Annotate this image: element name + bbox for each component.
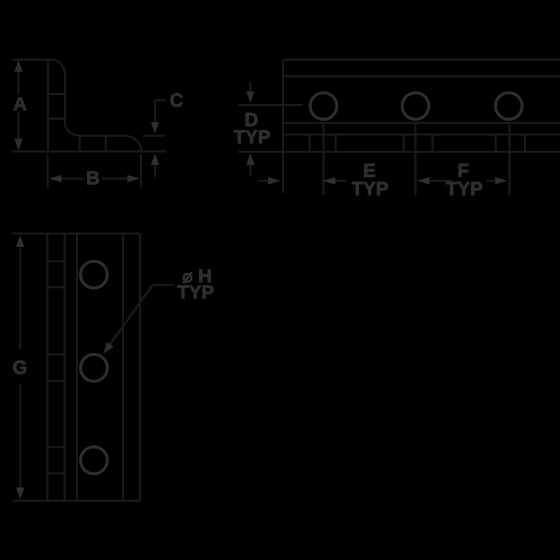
top view line 2 <box>283 75 560 77</box>
side view L-profile outline <box>48 60 142 152</box>
front view bottom edge with G extension <box>13 500 141 502</box>
side view horizontal leg tick 2 <box>105 136 107 152</box>
dimension A line upper segment <box>18 71 20 95</box>
top view tick 1a <box>309 135 311 152</box>
dimension G bottom arrowhead <box>16 488 24 500</box>
label TYP @(252.0,143.3) w=37.0 <box>234 130 270 143</box>
label TYP @(195.6,298.5) w=37.0 <box>177 285 213 298</box>
hole 1 center extension line <box>323 123 325 196</box>
dimension B left arrowhead <box>49 175 62 182</box>
top view left edge <box>282 60 284 152</box>
dimension A bottom arrowhead <box>14 139 22 151</box>
dimension B right arrowhead <box>127 175 139 182</box>
label TYP @(464.3,195.1) w=37.0 <box>446 182 482 195</box>
dimension A bottom extension line / part bottom / C extension <box>12 151 166 153</box>
label A @(20.0,110.3) w=13.7 <box>14 97 27 110</box>
label H @(205,282.4) <box>199 269 210 282</box>
hole leader diagonal segment <box>108 285 153 348</box>
dimension F left arrowhead <box>417 177 430 184</box>
dimension C leader elbow <box>155 100 166 112</box>
front view tick 3b <box>47 472 64 474</box>
front view tick 2b <box>47 380 64 382</box>
front view tick 1a <box>47 260 64 262</box>
dimension F right arrow shaft <box>486 180 498 182</box>
dimension C up arrow shaft <box>154 163 156 177</box>
label G @(19.9,373.8) w=14.8 <box>13 361 26 374</box>
dimension C down arrowhead <box>151 122 159 134</box>
dimension C down arrow shaft <box>154 108 156 123</box>
top view left edge extension below <box>282 152 284 193</box>
dimension B line right segment <box>102 178 130 180</box>
top view hole 3 <box>496 93 523 120</box>
dimension C up arrowhead <box>151 154 159 166</box>
dimension A top extension line <box>12 59 47 61</box>
front view left edge <box>46 234 48 501</box>
top view tick 1b <box>335 135 337 152</box>
front view tick 2a <box>47 353 64 355</box>
dimension F left arrow shaft <box>428 180 452 182</box>
side view vertical leg tick 1 <box>48 93 65 95</box>
label TYP @(370.0,195.1) w=37.0 <box>352 182 388 195</box>
dimension D down arrow shaft <box>249 82 251 93</box>
label E @(369.5,176.9) w=12.7 <box>364 164 375 177</box>
top view tick 3a <box>495 135 497 152</box>
hole 3 center extension line <box>508 123 510 196</box>
dimension G top arrowhead <box>16 235 24 247</box>
dimension G line lower segment <box>19 384 21 490</box>
top view tick 2b <box>432 135 434 152</box>
top view line 4 <box>283 134 560 136</box>
top view tick 2a <box>403 135 405 152</box>
dimension A line lower segment <box>18 113 20 141</box>
dimension G line upper segment <box>19 246 21 350</box>
dimension D up arrow shaft <box>249 164 251 177</box>
diameter symbol <box>183 272 192 283</box>
front view inner line 3 <box>76 234 78 501</box>
dimension B line left segment <box>59 178 84 180</box>
top view line 3 <box>283 122 560 124</box>
dimension B right extension line <box>140 154 142 187</box>
dimension D down arrowhead <box>246 91 254 103</box>
dimension A top arrowhead <box>14 60 22 71</box>
top view hole 2 <box>402 93 429 120</box>
dimension D hole centerline extension <box>238 104 303 106</box>
label F @(463.2,176.9) w=11.6 <box>459 164 469 177</box>
dimension D up arrowhead <box>246 153 254 165</box>
hole leader arrowhead <box>103 342 113 354</box>
front view hole 1 <box>81 261 108 288</box>
front view right edge <box>139 234 141 501</box>
top view hole 1 <box>310 93 337 120</box>
edge offset arrowhead <box>268 177 281 184</box>
front view tick 1b <box>47 286 64 288</box>
dimension C top extension line <box>143 135 166 137</box>
dimension E arrow shaft <box>333 180 346 182</box>
side view vertical leg tick 2 <box>48 118 65 120</box>
front view inner line 2 <box>64 234 66 501</box>
edge offset arrow shaft <box>258 180 270 182</box>
dimension B left extension line <box>47 154 49 187</box>
front view inner line 4 <box>122 234 124 501</box>
front view tick 3a <box>47 446 64 448</box>
front view top edge with G extension <box>13 233 141 235</box>
front view hole 2 <box>81 354 108 381</box>
label D @(251.4,126.1) w=13.7 <box>246 113 258 126</box>
front view hole 3 <box>81 447 108 474</box>
top view tick 3b <box>524 135 526 152</box>
top view top edge <box>283 59 560 61</box>
hole 2 center extension line <box>415 123 417 196</box>
hole leader horizontal segment <box>153 284 175 286</box>
side view horizontal leg tick 1 <box>79 136 81 152</box>
label C @(176.5,106.6) w=13.7 <box>170 93 182 106</box>
dimension E left arrowhead <box>323 177 336 184</box>
dimension F right arrowhead <box>495 177 508 184</box>
top view bottom edge with left extension <box>238 151 560 153</box>
label B @(92.9,184.4) w=13.7 <box>87 171 99 184</box>
